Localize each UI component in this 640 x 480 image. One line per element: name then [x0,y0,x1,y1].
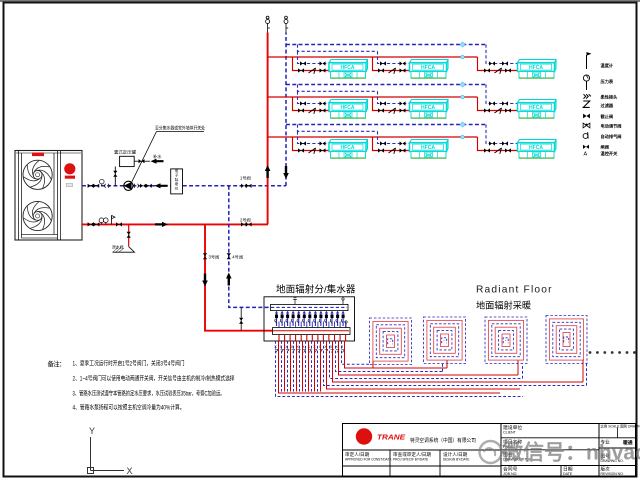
loop 8 supply [317,322,319,342]
pump callout leader [131,125,206,184]
svg-text:4、管路水泵扬程可以按照主机空调冷量为40%计算。: 4、管路水泵扬程可以按照主机空调冷量为40%计算。 [73,404,185,412]
branch supply union [320,108,326,112]
svg-text:JOB NO.: JOB NO. [503,472,517,476]
branch return union [400,141,406,145]
UCS axis icon [88,426,133,476]
branch supply valve [298,68,304,72]
branch return pipe [378,91,410,103]
fcu3 strainer [495,148,502,154]
branch return pipe [298,51,330,63]
svg-text:HFCA: HFCA [529,65,543,71]
floor loop pipe 13 [311,341,313,392]
fcu3 supply union [505,148,511,152]
check valve on tank branch [113,171,117,177]
valve on return main [88,184,94,188]
svg-text:仪: 仪 [175,186,179,191]
valve no.2 [240,216,252,226]
branch return valve [300,101,306,105]
svg-text:备注：: 备注： [48,359,66,368]
valve no.4 [227,253,243,260]
branch supply pipe [293,57,330,71]
make-up water arrow [151,153,164,164]
floor loop pipe 10 [302,341,304,392]
coil 4 feed risers [583,360,587,386]
loop 3 supply [289,322,291,342]
air vent on supply riser [266,16,270,32]
fan F2 [23,201,52,230]
svg-text:电: 电 [175,168,179,173]
branch return union [320,61,326,65]
svg-text:微信号：nhvacd: 微信号：nhvacd [501,441,640,465]
branch supply union [320,68,326,72]
svg-text:压力表: 压力表 [601,78,614,85]
row 1 return end drop [486,45,518,64]
valve no.3 [203,253,219,260]
floor loop pipe 15 [317,341,319,392]
branch supply union [400,108,406,112]
svg-text:PROJ SPECIF BY/DATE: PROJ SPECIF BY/DATE [393,458,428,462]
floor loop pipe 2 [279,341,501,393]
floor loop pipe 6 [290,341,292,392]
svg-text:泄水阀: 泄水阀 [112,245,124,250]
loop number tags [274,345,344,352]
row 1 return line [286,44,486,46]
floor loop pipe 14 [314,341,316,392]
svg-text:A: A [584,152,588,158]
fan coil unit FCU1-1 [329,60,368,79]
fcu3 supply union [505,68,511,72]
floor loop pipe 16 [320,341,322,392]
svg-text:HFCA: HFCA [529,145,543,151]
fan coil unit FCU3-2 [410,140,449,159]
svg-text:3号阀: 3号阀 [209,253,220,260]
row 3 supply end drop [478,137,518,151]
branch return valve [380,141,386,145]
fcu3 return union [502,101,508,105]
fan coil unit FCU3-3 [518,140,557,159]
svg-text:特灵空调系统（中国）有限公司: 特灵空调系统（中国）有限公司 [410,436,476,444]
pipe tag marks [460,122,465,139]
svg-text:温度计: 温度计 [601,62,614,69]
loop 2 supply [284,322,286,342]
valve after pump 2 [146,184,152,188]
electronic water treater [171,168,183,194]
heat pump unit HP1 [15,151,82,241]
svg-text:X: X [127,466,133,476]
pressure bypass valve [239,307,243,330]
svg-text:DATE: DATE [563,472,573,476]
drain branch [128,224,130,246]
title block [343,424,637,477]
continuation dots [589,351,636,354]
row 2 return line [286,84,486,86]
svg-text:APPROVED FOR CONST/DATE: APPROVED FOR CONST/DATE [345,458,392,462]
svg-text:CLIENT: CLIENT [503,430,517,434]
flex joint on return main [93,184,99,188]
svg-text:1、夏季工况运行时开启1号2号阀门，关闭3号4号阀门: 1、夏季工况运行时开启1号2号阀门，关闭3号4号阀门 [73,360,185,368]
floor loop pipe 23 [342,341,371,364]
row 3 return line [286,124,486,126]
loop 4 return [291,311,294,326]
expansion tank branch pipe [114,167,116,186]
row 2 sub return line [298,85,378,92]
branch strainer [309,108,316,114]
svg-text:闸阀: 闸阀 [601,144,609,151]
fcu3 strainer [495,108,502,114]
fcu3 strainer [495,68,502,74]
svg-text:比例 SCALE 图别 DRAWN: 比例 SCALE 图别 DRAWN [601,423,640,428]
pipe tag marks [460,82,465,99]
branch strainer [309,148,316,154]
floor loop pipe 1 [276,341,524,397]
row 2 return end drop [486,85,518,104]
floor loop pipe 7 [293,341,295,392]
row 2 supply line [268,96,478,98]
floor loop pipe 9 [299,341,301,392]
branch supply pipe [373,137,410,151]
branch return pipe [298,131,330,143]
loop 5 supply [300,322,302,342]
manifold label [276,284,356,296]
svg-text:1号阀: 1号阀 [240,175,251,182]
floor loop pipe 4 [284,341,286,392]
floor heating coil 1 [370,318,412,365]
fcu3 return valve [489,101,495,105]
title cells middle [503,424,573,476]
fcu3 supply valve [484,108,490,112]
floor loop pipe 19 [330,341,523,379]
svg-text:HFCA: HFCA [421,145,435,151]
svg-text:HFCA: HFCA [341,65,355,71]
branch return union [320,141,326,145]
branch supply valve [378,148,384,152]
branch return union [400,61,406,65]
svg-text:TRANE: TRANE [377,433,406,442]
svg-text:至分集水器或室外墙体开关处: 至分集水器或室外墙体开关处 [155,125,206,132]
svg-text:补水: 补水 [153,153,162,160]
svg-text:2、1~4号阀门可以使用电动两通开关阀，开关信号由主机的制冷: 2、1~4号阀门可以使用电动两通开关阀，开关信号由主机的制冷/制热模式选择 [73,375,236,383]
loop 6 supply [306,322,308,342]
manifold supply header [273,328,351,335]
flow arrow up on supply riser [265,165,271,178]
loop 1 supply [278,322,280,342]
fan F1 [23,160,52,189]
branch supply pipe [293,137,330,151]
row 3 supply line [268,136,478,138]
supply riser (red) [267,33,269,225]
loop 8 return [314,311,317,326]
svg-text:截止阀: 截止阀 [601,113,614,120]
coil 2 feed risers [443,360,448,372]
notes [48,359,236,412]
radiant floor label cn [476,300,531,311]
branch return valve [380,101,386,105]
loop 12 return [336,311,339,326]
chilled water return main (blue dashed) [82,185,286,187]
radiant floor label en [476,285,553,296]
pipe tag marks [460,42,465,59]
coil 1 feed riser [372,362,374,369]
floor loop pipe 20 [333,341,584,382]
temperature sensor pennant [112,216,115,225]
return riser (blue dashed) [285,33,287,186]
row 3 sub return line [298,125,378,132]
heat pump brand logo [64,163,75,186]
loop 4 supply [295,322,297,342]
fcu3 return valve [489,61,495,65]
branch return valve [300,141,306,145]
branch supply valve [378,68,384,72]
pressure gauge on supply main [104,218,109,225]
floor loop pipe 18 [327,341,521,389]
floor loop pipe 3 [281,341,283,392]
svg-text:垢: 垢 [175,181,179,186]
fcu3 supply valve [484,68,490,72]
loop 13 supply [345,322,347,342]
manifold cabinet [264,297,355,341]
loop 9 supply [322,322,324,342]
svg-text:4号阀: 4号阀 [232,253,243,260]
loop 3 return [286,311,289,326]
flex joint after pump [134,184,138,188]
branch strainer [389,148,396,154]
heat pump top red nameplate [32,153,44,157]
svg-text:HFCA: HFCA [529,105,543,111]
branch strainer [389,108,396,114]
floor loop pipe 8 [296,341,298,392]
expansion tank [114,149,137,167]
floor loop pipe 21 [336,341,443,372]
loop 12 supply [339,322,341,342]
floor loop pipe 22 [339,341,519,375]
svg-text:地面辐射分/集水器: 地面辐射分/集水器 [276,284,356,296]
valve on supply main [88,222,94,226]
drain valve [127,232,131,238]
thermometer on supply main [99,218,104,225]
floor loop pipe 24 [345,341,448,368]
floor heating coil 3 [485,317,527,364]
legend [583,52,621,158]
floor loop pipe 12 [308,341,310,392]
loop 1 return [275,311,278,326]
floor loop pipe 11 [305,341,307,392]
make-up water valve [134,159,150,163]
row 1 supply end drop [478,57,518,71]
flow arrow down on return riser [283,166,289,179]
title cells right [601,423,640,476]
floor return drop (blue) [229,186,271,308]
branch supply union [400,68,406,72]
svg-text:过滤器: 过滤器 [601,102,614,109]
branch strainer [389,68,396,74]
valve after pump [140,184,146,188]
fcu3 return valve [489,141,495,145]
fcu3 return union [502,61,508,65]
fcu3 return union [502,141,508,145]
svg-text:Radiant Floor: Radiant Floor [476,285,553,296]
svg-text:HFCA: HFCA [341,105,355,111]
air vent on return riser [284,16,288,32]
company name [410,436,476,444]
watermark text [501,441,640,465]
title cells left [345,451,470,462]
svg-text:电动调节阀: 电动调节阀 [601,123,622,130]
svg-text:REVISION NO.: REVISION NO. [601,472,624,476]
loop 7 supply [311,322,313,342]
circulation pump P1 [124,181,133,190]
branch return union [320,101,326,105]
branch return union [400,101,406,105]
valve on supply main 2 [116,222,122,226]
flex joint on supply main [93,222,99,226]
row 1 supply line [268,56,478,58]
svg-text:HFCA: HFCA [341,145,355,151]
svg-text:HFCA: HFCA [421,105,435,111]
svg-text:地面辐射采暖: 地面辐射采暖 [476,300,531,311]
loop 5 return [297,311,300,326]
return flow arrow [155,183,168,188]
floor loop pipe 17 [324,341,587,386]
floor loop pipe 5 [287,341,289,392]
branch return valve [300,61,306,65]
flex connector [105,184,109,188]
svg-text:子: 子 [175,172,179,177]
fan coil unit FCU2-1 [329,100,368,119]
fan coil unit FCU1-2 [410,60,449,79]
fcu3 supply valve [484,148,490,152]
row 1 sub return line [298,45,378,52]
svg-text:自动排气阀: 自动排气阀 [601,133,622,140]
branch supply valve [378,108,384,112]
branch supply valve [298,108,304,112]
manifold header vents [293,298,347,328]
loop 2 return [280,311,283,326]
drain funnel [112,245,135,253]
branch supply union [320,148,326,152]
branch return valve [380,61,386,65]
manifold return header [271,304,349,310]
watermark emblem [480,441,502,463]
floor heating coil 2 [424,317,466,364]
svg-text:Y: Y [89,426,95,436]
loop 10 supply [328,322,330,342]
svg-text:DESIGN BY/DATE: DESIGN BY/DATE [443,458,470,462]
svg-text:囊式定压罐: 囊式定压罐 [114,149,137,156]
svg-text:柔性接头: 柔性接头 [601,94,619,101]
fan coil unit FCU2-3 [518,100,557,119]
branch supply union [400,148,406,152]
chilled water supply main (red) [82,223,268,225]
loop 11 return [330,311,333,326]
branch return pipe [298,91,330,103]
branch return pipe [378,51,410,63]
loop 11 supply [334,322,336,342]
floor heating coil 4 [546,316,587,364]
supply flow arrow [155,222,168,227]
row 2 supply end drop [478,97,518,111]
loop 9 return [319,311,322,326]
loop 7 return [308,311,311,326]
flow arrow down on floor supply [202,274,208,287]
trane logo [356,428,406,444]
flow arrow up on floor return [226,273,232,286]
svg-text:3、管路水压测试遵守本管路的定水压要求，水压试验表压35ba: 3、管路水压测试遵守本管路的定水压要求，水压试验表压35bar，考察C加验运。 [73,390,225,398]
fan coil unit FCU1-3 [518,60,557,79]
valve no.1 [240,175,252,188]
coil 3 feed risers [518,360,523,379]
fcu3 supply union [505,108,511,112]
fan coil unit FCU2-2 [410,100,449,119]
fan coil unit FCU3-1 [329,140,368,159]
svg-text:2号阀: 2号阀 [240,216,251,223]
branch supply pipe [293,97,330,111]
floor supply drop (red) [205,224,273,330]
svg-text:温控开关: 温控开关 [601,150,619,157]
branch return pipe [378,131,410,143]
loop 6 return [303,311,306,326]
branch supply valve [298,148,304,152]
svg-text:除: 除 [175,177,179,182]
branch supply pipe [373,57,410,71]
branch strainer [309,68,316,74]
row 3 return end drop [486,125,518,144]
svg-text:HFCA: HFCA [421,65,435,71]
loop 13 return [341,311,344,326]
loop 10 return [325,311,328,326]
branch supply pipe [373,97,410,111]
thermometer gauge on return main [100,179,105,186]
